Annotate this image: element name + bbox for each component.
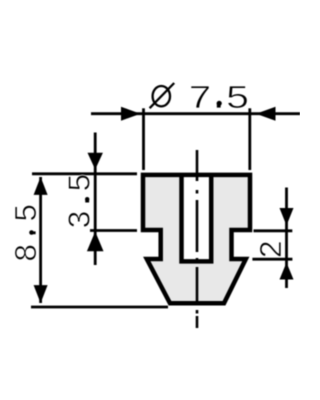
dimension 2 line — [285, 188, 288, 289]
dimension 8.5 bottom arrow — [34, 285, 48, 303]
dimension 8.5 text decimal dot — [29, 230, 34, 235]
dimension 2 top extension line — [254, 229, 293, 232]
slot hole fill — [179, 177, 213, 263]
dimension Ø 7.5 left arrow — [121, 107, 141, 121]
dimension 8.5 top arrow — [34, 177, 48, 195]
part body fill — [143, 175, 250, 303]
dimension 8.5 line — [39, 177, 42, 303]
dimension 3.5 bottom extension line — [90, 229, 137, 232]
slot hole outline — [182, 176, 212, 261]
dimension 3.5 bottom arrow — [87, 232, 104, 252]
dimension 2 top arrow — [280, 208, 294, 226]
svg-text:3.5: 3.5 — [65, 173, 100, 229]
dimension Ø 7.5 text: diameter symbol — [150, 83, 175, 108]
dimension 3.5 top arrow — [88, 153, 103, 170]
dimension 2 text — [256, 240, 291, 259]
dimension 8.5 top extension line — [32, 172, 137, 175]
dimension 3.5 text — [65, 173, 100, 229]
part body outline — [143, 175, 250, 303]
dimension 8.5 text — [11, 202, 46, 262]
centerline — [196, 150, 199, 328]
svg-text:2: 2 — [256, 240, 291, 259]
dimension Ø 7.5 left extension line — [142, 108, 145, 170]
dimension Ø 7.5 right arrow — [256, 107, 276, 121]
dimension 3.5 text decimal dot — [85, 197, 89, 201]
dimension Ø 7.5 line — [91, 112, 301, 115]
dimension 8.5 bottom extension line — [31, 306, 168, 309]
dimension 7.5 text decimal dot — [217, 101, 222, 106]
dimension 2 bottom extension line — [252, 258, 292, 261]
dimension Ø 7.5 right extension line — [248, 108, 251, 170]
svg-text:7.5: 7.5 — [188, 81, 249, 118]
dimension Ø 7.5 text: value — [188, 81, 249, 118]
svg-text:8.5: 8.5 — [11, 202, 46, 262]
dimension 2 bottom arrow — [280, 263, 294, 280]
dimension 3.5 line — [94, 133, 97, 266]
